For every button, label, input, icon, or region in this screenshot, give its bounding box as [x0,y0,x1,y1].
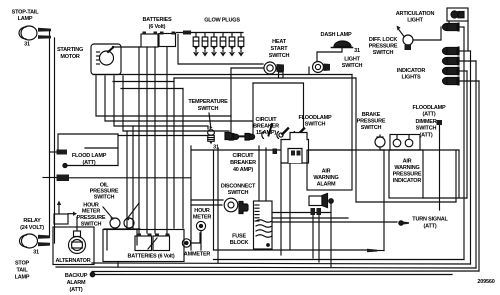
svg-text:FLOODLAMP: FLOODLAMP [298,115,332,121]
svg-text:SWITCH: SWITCH [81,222,102,228]
svg-text:BATTERIES (6 Volt): BATTERIES (6 Volt) [128,254,175,260]
svg-text:AMMETER: AMMETER [184,252,211,258]
svg-text:FLOODLAMP: FLOODLAMP [412,105,446,111]
svg-text:AIR: AIR [403,159,412,165]
svg-text:MOTOR: MOTOR [60,54,80,60]
svg-text:TEMPERATURE: TEMPERATURE [188,99,228,105]
svg-text:LIGHTS: LIGHTS [402,75,421,81]
svg-text:31: 31 [213,145,219,151]
svg-text:STARTING: STARTING [57,47,83,53]
svg-text:BREAKER: BREAKER [230,160,256,166]
svg-text:ALARM: ALARM [317,182,336,188]
svg-text:BATTERIES: BATTERIES [143,17,172,23]
svg-text:FUSE: FUSE [232,234,246,240]
svg-text:31: 31 [354,48,360,54]
svg-text:BRAKE: BRAKE [362,112,381,118]
svg-text:PRESSURE: PRESSURE [393,172,422,178]
svg-text:209560: 209560 [477,279,494,285]
svg-text:START: START [271,46,289,52]
svg-text:STOP-TAIL: STOP-TAIL [12,10,40,16]
svg-text:CIRCUIT: CIRCUIT [233,153,255,159]
svg-text:LIGHT: LIGHT [407,18,423,24]
svg-text:TAIL: TAIL [16,268,28,274]
svg-text:DASH LAMP: DASH LAMP [321,32,352,38]
svg-text:BACKUP: BACKUP [65,273,88,279]
svg-text:LAMP: LAMP [18,16,33,22]
svg-text:SWITCH: SWITCH [305,122,326,128]
svg-text:WARNING: WARNING [313,175,338,181]
svg-text:(ATT): (ATT) [83,160,96,166]
svg-text:ALTERNATOR: ALTERNATOR [56,258,91,264]
svg-text:40 AMP): 40 AMP) [233,167,253,173]
svg-text:(ATT): (ATT) [70,287,83,293]
svg-text:ARTICULATION: ARTICULATION [396,11,435,17]
svg-text:INDICATOR: INDICATOR [393,178,421,184]
svg-text:METER: METER [193,215,211,221]
svg-text:ALARM: ALARM [67,280,86,286]
svg-text:GLOW PLUGS: GLOW PLUGS [204,18,240,24]
svg-text:DIFF. LOCK: DIFF. LOCK [369,37,397,43]
svg-text:PRESSURE: PRESSURE [357,119,386,125]
svg-text:SWITCH: SWITCH [373,50,394,56]
svg-text:WARNING: WARNING [394,165,419,171]
svg-text:(24 VOLT): (24 VOLT) [20,225,44,231]
svg-text:CIRCUIT: CIRCUIT [256,117,278,123]
svg-text:FLOOD LAMP: FLOOD LAMP [72,153,107,159]
svg-text:(6 Volt): (6 Volt) [149,24,166,30]
svg-text:STOP: STOP [15,261,30,267]
svg-text:SWITCH: SWITCH [416,126,437,132]
svg-text:HOUR: HOUR [194,208,210,214]
svg-text:HEAT: HEAT [272,39,287,45]
svg-text:15 AMP): 15 AMP) [256,130,276,136]
svg-text:DIMMER: DIMMER [415,119,436,125]
svg-text:(ATT): (ATT) [423,112,436,118]
svg-text:PRESSURE: PRESSURE [369,44,398,50]
svg-text:SWITCH: SWITCH [228,190,249,196]
svg-text:31: 31 [33,250,39,256]
svg-text:TURN SIGNAL: TURN SIGNAL [412,217,448,223]
svg-text:LIGHT: LIGHT [344,57,360,63]
svg-text:SWITCH: SWITCH [361,125,382,131]
svg-text:SWITCH: SWITCH [94,195,115,201]
svg-text:INDICATOR: INDICATOR [397,68,425,74]
svg-text:SWITCH: SWITCH [342,63,363,69]
svg-text:METER: METER [82,209,100,215]
svg-text:BREAKER: BREAKER [253,124,279,130]
svg-text:PRESSURE: PRESSURE [77,215,106,221]
svg-text:DISCONNECT: DISCONNECT [221,184,256,190]
svg-text:LAMP: LAMP [15,275,30,281]
svg-text:(ATT): (ATT) [424,224,437,230]
svg-text:SWITCH: SWITCH [198,106,219,112]
svg-text:AIR: AIR [322,169,331,175]
svg-text:(ATT): (ATT) [420,133,433,139]
svg-text:SWITCH: SWITCH [269,53,290,59]
svg-text:31: 31 [24,42,30,48]
svg-text:RELAY: RELAY [23,218,41,224]
svg-text:BLOCK: BLOCK [230,240,249,246]
